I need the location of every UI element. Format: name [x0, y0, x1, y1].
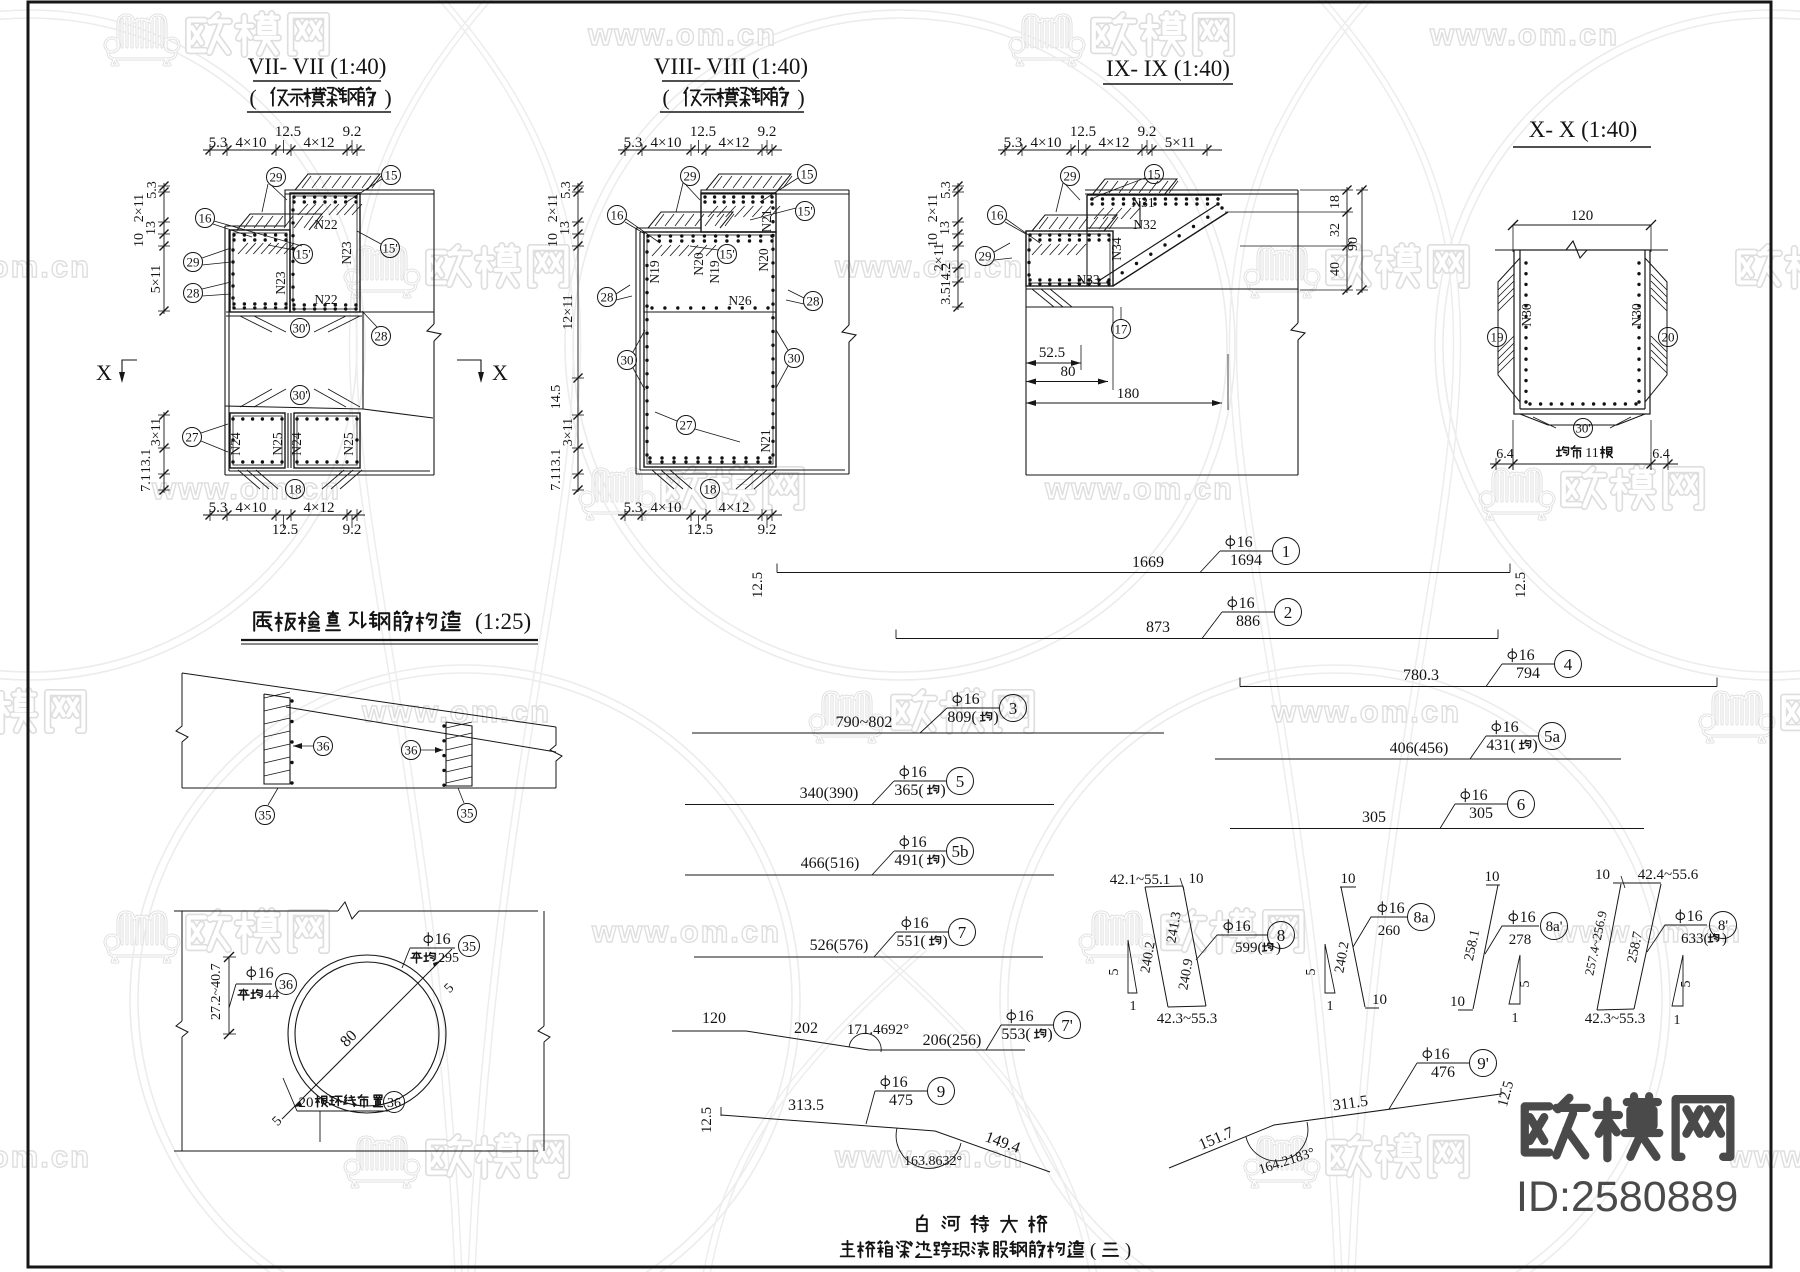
svg-text:90: 90 [1346, 237, 1361, 251]
svg-text:X: X [492, 360, 508, 385]
svg-text:5.3: 5.3 [209, 500, 228, 516]
svg-text:20: 20 [299, 1095, 314, 1111]
svg-text:16: 16 [199, 210, 213, 225]
svg-text:7.1: 7.1 [139, 474, 154, 492]
svg-text:12.5: 12.5 [699, 1107, 715, 1133]
svg-text:5.3: 5.3 [624, 135, 643, 151]
svg-text:4×10: 4×10 [236, 135, 267, 151]
svg-text:16: 16 [911, 764, 927, 781]
svg-text:28: 28 [187, 285, 200, 300]
svg-text:N26: N26 [728, 293, 751, 308]
svg-text:295: 295 [438, 951, 459, 966]
svg-text:42.3~55.3: 42.3~55.3 [1157, 1011, 1218, 1027]
svg-text:42.4~55.6: 42.4~55.6 [1638, 867, 1699, 883]
svg-text:2×11: 2×11 [546, 194, 561, 222]
svg-text:16: 16 [611, 207, 625, 222]
svg-text:www.om.cn: www.om.cn [834, 249, 1024, 284]
svg-text:www.om.cn: www.om.cn [1429, 17, 1619, 52]
svg-text:28: 28 [807, 293, 820, 308]
svg-text:12.5: 12.5 [687, 522, 713, 538]
svg-text:551(: 551( [896, 933, 925, 950]
svg-text:30': 30' [292, 387, 307, 402]
svg-text:16: 16 [435, 931, 451, 948]
svg-text:18: 18 [704, 481, 717, 496]
svg-text:5.3: 5.3 [145, 181, 160, 199]
svg-text:406(456): 406(456) [1390, 740, 1449, 757]
svg-text:N30: N30 [1519, 303, 1534, 326]
svg-text:16: 16 [1389, 900, 1405, 917]
svg-text:www.om.cn: www.om.cn [1271, 694, 1461, 729]
svg-text:5: 5 [1107, 969, 1122, 976]
svg-text:): ) [1532, 737, 1537, 754]
svg-text:7.1: 7.1 [549, 473, 564, 491]
svg-text:10: 10 [1189, 871, 1204, 887]
svg-text:278: 278 [1509, 932, 1532, 948]
svg-text:N25: N25 [341, 432, 356, 455]
svg-text:(: ( [662, 85, 669, 110]
svg-text:28: 28 [601, 289, 614, 304]
svg-text:15': 15' [295, 246, 310, 261]
svg-text:18: 18 [1328, 195, 1343, 209]
svg-text:14.5: 14.5 [549, 385, 564, 410]
svg-text:16: 16 [1235, 918, 1251, 935]
bottom-plate inspection hole rebar diagrams (1:25) [174, 609, 562, 1151]
svg-text:466(516): 466(516) [801, 855, 860, 872]
svg-text:8a': 8a' [1546, 919, 1563, 935]
svg-text:5a: 5a [1544, 727, 1561, 746]
svg-text:4×12: 4×12 [719, 135, 750, 151]
svg-text:N32: N32 [1133, 217, 1156, 232]
section VIII-VIII box girder cross-beam rebar view [546, 54, 856, 538]
svg-text:N23: N23 [273, 271, 288, 294]
svg-text:42.1~55.1: 42.1~55.1 [1110, 872, 1171, 888]
svg-text:36: 36 [405, 742, 419, 757]
svg-text:5×11: 5×11 [1165, 135, 1195, 151]
svg-text:VII- VII (1:40): VII- VII (1:40) [248, 54, 387, 79]
svg-text:20: 20 [1662, 329, 1675, 344]
svg-text:5.3: 5.3 [209, 135, 228, 151]
svg-text:30: 30 [788, 350, 801, 365]
svg-text:1694: 1694 [1230, 552, 1262, 569]
svg-text:N25: N25 [270, 432, 285, 455]
svg-text:35: 35 [259, 807, 272, 822]
svg-text:16: 16 [892, 1074, 908, 1091]
svg-text:16: 16 [991, 207, 1005, 222]
svg-text:13: 13 [144, 221, 159, 235]
svg-text:): ) [384, 85, 391, 110]
svg-text:16: 16 [1018, 1008, 1034, 1025]
svg-text:1: 1 [1282, 542, 1291, 561]
svg-text:780.3: 780.3 [1403, 667, 1439, 684]
svg-text:32: 32 [1328, 223, 1343, 237]
svg-text:4×10: 4×10 [651, 500, 682, 516]
svg-text:13: 13 [938, 221, 953, 235]
svg-text:www.om.cn: www.om.cn [1552, 914, 1742, 949]
svg-text:30: 30 [621, 352, 634, 367]
svg-text:N31: N31 [1131, 195, 1154, 210]
svg-text:(: ( [249, 85, 256, 110]
svg-text:180: 180 [1117, 386, 1140, 402]
svg-text:19: 19 [1491, 329, 1504, 344]
svg-text:10: 10 [546, 233, 561, 247]
svg-text:5: 5 [956, 772, 965, 791]
svg-text:35: 35 [462, 940, 476, 955]
svg-text:36: 36 [279, 978, 293, 993]
svg-text:12.5: 12.5 [272, 522, 298, 538]
svg-text:1: 1 [1327, 999, 1334, 1014]
svg-text:12.5: 12.5 [1070, 124, 1096, 140]
svg-text:16: 16 [911, 834, 927, 851]
svg-text:15: 15 [1148, 166, 1161, 181]
svg-text:): ) [797, 85, 804, 110]
svg-text:2×11: 2×11 [926, 194, 941, 222]
svg-text:16: 16 [1520, 909, 1536, 926]
svg-text:12.5: 12.5 [275, 124, 301, 140]
svg-text:120: 120 [1571, 208, 1594, 224]
svg-text:5: 5 [1304, 969, 1319, 976]
svg-text:9': 9' [1477, 1054, 1489, 1073]
svg-text:36: 36 [317, 738, 331, 753]
svg-text:N24: N24 [289, 432, 304, 455]
svg-text:16: 16 [1239, 595, 1255, 612]
svg-text:4×12: 4×12 [1099, 135, 1130, 151]
svg-text:5.3: 5.3 [624, 500, 643, 516]
svg-text:29: 29 [270, 169, 283, 184]
svg-text:10: 10 [132, 233, 147, 247]
svg-text:): ) [1125, 1240, 1131, 1261]
svg-text:526(576): 526(576) [810, 937, 869, 954]
svg-text:9.2: 9.2 [1138, 124, 1157, 140]
svg-text:40: 40 [1328, 262, 1343, 276]
svg-text:16: 16 [1687, 908, 1703, 925]
svg-text:4×10: 4×10 [651, 135, 682, 151]
svg-text:10: 10 [1341, 871, 1356, 887]
svg-text:16: 16 [1434, 1046, 1450, 1063]
svg-text:IX- IX (1:40): IX- IX (1:40) [1106, 56, 1230, 81]
watermark site logo and ID [1516, 1096, 1738, 1221]
svg-text:17: 17 [1115, 321, 1129, 336]
svg-text:553(: 553( [1001, 1026, 1030, 1043]
svg-text:1: 1 [1130, 999, 1137, 1014]
svg-text:13: 13 [558, 221, 573, 235]
svg-text:305: 305 [1362, 809, 1386, 826]
svg-text:N30: N30 [1629, 303, 1644, 326]
svg-text:4: 4 [1564, 655, 1573, 674]
svg-text:VIII- VIII (1:40): VIII- VIII (1:40) [654, 54, 808, 79]
svg-text:18: 18 [289, 481, 302, 496]
svg-text:16: 16 [913, 915, 929, 932]
svg-text:42.3~55.3: 42.3~55.3 [1585, 1011, 1646, 1027]
svg-text:16: 16 [964, 691, 980, 708]
svg-text:794: 794 [1516, 665, 1540, 682]
svg-text:16: 16 [1503, 719, 1519, 736]
svg-text:N21: N21 [758, 429, 773, 452]
svg-text:29: 29 [1064, 168, 1077, 183]
svg-text:N20: N20 [756, 248, 771, 271]
svg-text:9: 9 [937, 1082, 946, 1101]
svg-text:6: 6 [1517, 795, 1526, 814]
section IX-IX box girder rebar view [926, 56, 1368, 475]
svg-text:www.om.cn: www.om.cn [587, 17, 777, 52]
svg-text:4×12: 4×12 [719, 500, 750, 516]
svg-text:16: 16 [1519, 647, 1535, 664]
svg-text:6.4: 6.4 [1652, 447, 1670, 462]
svg-text:305: 305 [1469, 805, 1493, 822]
svg-text:N23: N23 [339, 241, 354, 264]
svg-text:12×11: 12×11 [561, 294, 576, 329]
svg-text:16: 16 [258, 965, 274, 982]
svg-text:www.om.cn: www.om.cn [1044, 471, 1234, 506]
svg-text:30': 30' [292, 320, 307, 335]
svg-text:52.5: 52.5 [1039, 345, 1065, 361]
svg-text:15': 15' [719, 246, 734, 261]
svg-text:4×10: 4×10 [1031, 135, 1062, 151]
svg-text:8: 8 [1277, 926, 1286, 945]
svg-text:www.om.cn: www.om.cn [591, 914, 781, 949]
svg-text:16: 16 [1472, 787, 1488, 804]
section VII-VII box girder cross-beam rebar view [96, 54, 508, 538]
svg-text:29: 29 [187, 254, 200, 269]
svg-text:1: 1 [1512, 1011, 1519, 1026]
svg-text:N19: N19 [707, 260, 722, 283]
svg-text:30': 30' [1575, 420, 1590, 435]
svg-text:27.2~40.7: 27.2~40.7 [209, 963, 224, 1020]
svg-text:X: X [96, 360, 112, 385]
svg-text:163.8632°: 163.8632° [904, 1154, 962, 1169]
svg-text:790~802: 790~802 [836, 714, 893, 731]
svg-text:29: 29 [979, 248, 992, 263]
svg-text:809(: 809( [947, 709, 976, 726]
svg-text:www.om.cn: www.om.cn [0, 249, 91, 284]
svg-text:N22: N22 [314, 292, 337, 307]
svg-text:N24: N24 [228, 432, 243, 455]
svg-text:260: 260 [1378, 923, 1401, 939]
svg-text:475: 475 [889, 1092, 913, 1109]
svg-text:9.2: 9.2 [758, 124, 777, 140]
svg-text:2: 2 [1284, 603, 1293, 622]
svg-text:8a: 8a [1413, 909, 1428, 926]
svg-text:365(: 365( [894, 782, 923, 799]
svg-text:120: 120 [702, 1010, 726, 1027]
svg-text:www.om.cn: www.om.cn [1727, 1139, 1800, 1174]
svg-text:N34: N34 [1109, 237, 1124, 260]
svg-text:4×12: 4×12 [304, 135, 335, 151]
svg-text:www.om.cn: www.om.cn [0, 1139, 91, 1174]
svg-text:11: 11 [1585, 446, 1598, 461]
rebar shape schedule bars 1-9 [672, 534, 1737, 1178]
section X-X rebar view [1488, 117, 1679, 470]
svg-text:2×11: 2×11 [132, 194, 147, 222]
svg-text:313.5: 313.5 [788, 1097, 824, 1114]
svg-text:28: 28 [375, 328, 388, 343]
svg-text:599(: 599( [1235, 940, 1263, 956]
svg-text:ID:2580889: ID:2580889 [1516, 1173, 1738, 1221]
svg-text:340(390): 340(390) [800, 785, 859, 802]
svg-text:12.5: 12.5 [1513, 572, 1529, 598]
svg-text:4×12: 4×12 [304, 500, 335, 516]
svg-text:): ) [942, 933, 947, 950]
svg-text:X- X (1:40): X- X (1:40) [1529, 117, 1638, 142]
svg-text:5.3: 5.3 [939, 181, 954, 199]
svg-text:8': 8' [1718, 918, 1729, 934]
svg-text:3: 3 [1009, 699, 1018, 718]
svg-text:3×11: 3×11 [149, 418, 164, 446]
svg-text:13.1: 13.1 [549, 449, 564, 474]
svg-text:36: 36 [387, 1096, 401, 1111]
svg-text:633(: 633( [1681, 931, 1709, 947]
svg-text:): ) [940, 782, 945, 799]
svg-text:5×11: 5×11 [149, 265, 164, 293]
svg-text:10: 10 [1595, 867, 1610, 883]
svg-text:): ) [1047, 1026, 1052, 1043]
svg-text:15: 15 [385, 167, 398, 182]
svg-text:1: 1 [1674, 1013, 1681, 1028]
svg-text:5: 5 [1518, 981, 1533, 988]
svg-text:16: 16 [1237, 534, 1253, 551]
svg-text:873: 873 [1146, 619, 1170, 636]
svg-text:N33: N33 [1076, 272, 1099, 287]
svg-text:): ) [993, 709, 998, 726]
svg-text:27: 27 [680, 417, 694, 432]
svg-text:202: 202 [794, 1020, 818, 1037]
svg-text:(: ( [1090, 1240, 1096, 1261]
svg-text:(1:25): (1:25) [475, 609, 531, 634]
svg-text:44: 44 [265, 988, 279, 1003]
svg-text:5b: 5b [952, 842, 969, 861]
svg-text:9.2: 9.2 [343, 124, 362, 140]
svg-text:12.5: 12.5 [750, 572, 766, 598]
svg-text:7: 7 [958, 923, 967, 942]
svg-text:35: 35 [461, 805, 474, 820]
svg-text:6.4: 6.4 [1496, 447, 1514, 462]
svg-text:886: 886 [1236, 613, 1260, 630]
svg-text:15': 15' [382, 240, 397, 255]
svg-text:10: 10 [1450, 994, 1465, 1010]
svg-text:14.2: 14.2 [939, 263, 954, 288]
svg-text:N21: N21 [759, 209, 774, 232]
svg-text:5.3: 5.3 [1004, 135, 1023, 151]
svg-text:12.5: 12.5 [690, 124, 716, 140]
svg-text:206(256): 206(256) [923, 1032, 982, 1049]
svg-text:491(: 491( [894, 852, 923, 869]
svg-text:5.3: 5.3 [559, 181, 574, 199]
svg-text:80: 80 [1061, 364, 1076, 380]
svg-text:15: 15 [801, 166, 814, 181]
svg-text:431(: 431( [1486, 737, 1515, 754]
svg-text:13.1: 13.1 [139, 449, 154, 474]
svg-text:29: 29 [684, 168, 697, 183]
svg-text:N19: N19 [647, 260, 662, 283]
svg-text:10: 10 [1372, 992, 1387, 1008]
svg-text:3×11: 3×11 [561, 418, 576, 446]
svg-text:7': 7' [1061, 1016, 1073, 1035]
svg-text:1669: 1669 [1132, 554, 1164, 571]
svg-text:15': 15' [797, 203, 812, 218]
title block text [841, 1215, 1132, 1261]
svg-text:27: 27 [186, 429, 200, 444]
svg-text:476: 476 [1431, 1064, 1455, 1081]
svg-text:3.5: 3.5 [939, 287, 954, 305]
svg-text:4×10: 4×10 [236, 500, 267, 516]
svg-text:5: 5 [1679, 981, 1694, 988]
svg-text:N20: N20 [691, 252, 706, 275]
svg-text:10: 10 [1485, 869, 1500, 885]
svg-text:): ) [940, 852, 945, 869]
